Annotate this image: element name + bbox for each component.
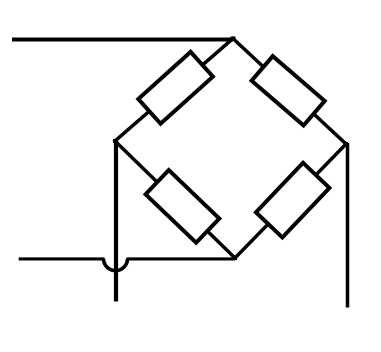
node D: bottom junction: [233, 256, 237, 260]
wire W5: bridge arm bottom-right (bottom node to right node): [235, 144, 346, 258]
node C: right junction: [344, 142, 348, 146]
wire W7a: hop arc dipping under vertical wire W6: [104, 259, 128, 271]
wire W6: left output lead (vertical, left node down): [114, 141, 118, 302]
wire W3: bridge arm top-right (top node to right node): [233, 39, 346, 145]
resistor R1 (top-left arm): [138, 52, 213, 124]
wire W2: bridge arm top-left (top node to left node): [115, 39, 233, 142]
wire W4: bridge arm bottom-left (left node to bottom node): [115, 141, 235, 258]
node A: top junction: [231, 37, 236, 41]
wire W1: top supply feed (left edge to top node): [12, 38, 233, 42]
wire W7b: bottom return wire (hop to bottom node): [127, 257, 236, 260]
wire W7: bottom return wire (left segment to hop): [19, 257, 105, 260]
node B: left junction: [113, 139, 117, 143]
wire W8: right output lead (vertical, right node down): [346, 143, 350, 308]
resistor R2 (top-right arm): [252, 56, 325, 125]
resistor R4 (bottom-right arm): [256, 163, 329, 238]
resistor R3 (bottom-left arm): [146, 170, 220, 243]
